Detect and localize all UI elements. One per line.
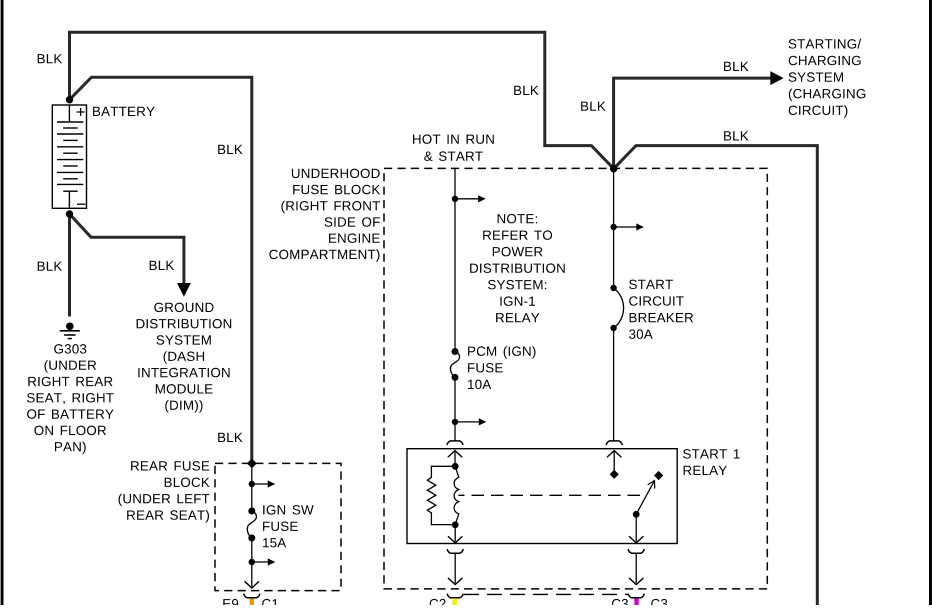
label E9	[223, 599, 238, 609]
relay coil winding	[454, 466, 459, 524]
wire IGN SW fuse to block edge	[251, 538, 253, 587]
wire BLK battery negative down to ground G303	[68, 214, 71, 317]
connector E9/C1 half-circle at rear block boundary	[244, 594, 260, 598]
battery minus sign	[77, 203, 86, 205]
label UNDERHOOD FUSE BLOCK (RIGHT FRONT SIDE OF ENGINE COMPARTMENT)	[269, 169, 380, 262]
label HOT IN RUN & START	[413, 134, 494, 161]
rear fuse block dashed outline	[215, 463, 341, 590]
wire label BLK (rear fuse block feed upper)	[218, 145, 242, 154]
ground G303 symbol	[60, 323, 80, 339]
label BATTERY	[93, 107, 155, 116]
relay switch fixed contact diamond (input)	[610, 470, 619, 479]
junction dot with branch arrow above relay	[452, 419, 458, 425]
battery symbol	[52, 105, 86, 208]
relay coil top junction dot	[452, 463, 459, 470]
wire BLK battery positive branch to rear fuse block feed	[70, 77, 252, 460]
wire main junction down to circuit breaker	[613, 169, 615, 288]
fuse IGN SW 15A	[247, 508, 256, 542]
junction dot with branch arrow in rear fuse block	[249, 481, 255, 487]
battery positive terminal junction dot	[66, 96, 73, 103]
relay switch movable arm with arrowhead	[636, 481, 654, 515]
junction dot with branch arrow above block edge	[249, 559, 255, 565]
connector half-circle below relay switch output	[628, 550, 644, 554]
wire relay switch output to underhood block edge	[635, 553, 637, 583]
relay switch output pin arrow to box edge	[635, 514, 637, 541]
relay suppression resistor	[427, 466, 455, 524]
fuse PCM (IGN) 10A	[450, 348, 459, 381]
wire BLK main junction up and right to starting/charging system	[614, 78, 771, 169]
wire PCM fuse to relay pin	[454, 377, 456, 441]
relay coil output pin arrow to box edge	[454, 525, 456, 542]
relay actuation dashed link	[458, 494, 640, 496]
arrowhead to ground distribution system	[177, 283, 191, 297]
junction dot with branch arrow below main junction	[610, 224, 616, 230]
connector C2 half-circle at underhood block boundary	[447, 594, 463, 598]
connector bracket dashed line between C2 and C3	[464, 593, 629, 595]
label IGN SW FUSE 15A	[263, 505, 314, 547]
junction dot at main bus split on fuse block boundary	[610, 165, 617, 172]
wire BLK battery negative branch to ground distribution system	[70, 214, 184, 283]
circuit breaker START CIRCUIT BREAKER 30A	[610, 285, 623, 331]
wire label BLK (battery negative to G303)	[38, 262, 62, 271]
underhood fuse block dashed outline	[384, 168, 767, 589]
wire colour tick magenta at C3	[634, 598, 638, 605]
wire BLK battery positive to top bus and main junction	[70, 32, 614, 168]
connector C3 half-circle at underhood block boundary	[628, 594, 644, 598]
label PCM (IGN) FUSE 10A	[468, 346, 536, 389]
label C2	[430, 599, 446, 609]
wire hot-in-run feed down to PCM fuse	[454, 168, 456, 352]
page left border	[1, 0, 4, 605]
arrowhead to starting/charging system	[770, 71, 783, 85]
label C3 right of connector	[651, 599, 667, 609]
wire colour tick orange at C1	[250, 598, 254, 605]
relay box START 1 RELAY	[407, 449, 677, 544]
wire colour tick yellow at C2	[452, 598, 457, 605]
label STARTING/CHARGING SYSTEM (CHARGING CIRCUIT)	[789, 39, 866, 118]
page right border	[929, 0, 932, 605]
connector half-circle at relay coil supply pin	[447, 441, 463, 445]
label NOTE REFER TO POWER DISTRIBUTION SYSTEM IGN-1 RELAY	[470, 214, 565, 322]
connector half-circle at relay switch supply pin	[606, 441, 622, 445]
connector half-circle below relay coil output	[447, 550, 463, 554]
battery plus sign	[77, 108, 85, 116]
relay switch fixed contact diamond (normally open)	[654, 471, 663, 480]
junction dot with branch arrow below hot in run	[452, 196, 458, 202]
label START CIRCUIT BREAKER 30A	[629, 280, 693, 339]
wire label BLK (top bus right end)	[514, 86, 538, 95]
wire label BLK (right-side bus)	[724, 131, 749, 140]
wire label BLK (riser to charging arrow)	[581, 102, 605, 111]
wire relay coil output to underhood block edge	[454, 553, 456, 583]
wire feed down to IGN SW fuse	[251, 468, 253, 511]
relay switch common pivot dot	[633, 511, 640, 518]
relay coil bottom junction dot	[452, 521, 459, 528]
label C3 left of connector	[612, 599, 628, 609]
wire label BLK (arrow to charging circuit)	[724, 62, 749, 71]
wire label BLK (rear fuse block feed lower)	[218, 433, 242, 442]
battery negative terminal junction dot	[66, 210, 73, 217]
relay switch input pin entry arrow	[607, 451, 621, 457]
label GROUND DISTRIBUTION SYSTEM (DASH INTEGRATION MODULE (DIM))	[137, 303, 232, 413]
label START 1 RELAY	[683, 449, 740, 475]
wire circuit breaker to relay pin 30	[613, 328, 615, 441]
label REAR FUSE BLOCK (UNDER LEFT REAR SEAT)	[119, 461, 210, 522]
label C1	[262, 599, 278, 609]
relay coil pin entry arrow	[448, 451, 462, 457]
feed terminal diamond on rear fuse block boundary	[247, 458, 257, 468]
wire label BLK (to ground distribution)	[150, 261, 174, 270]
label G303 location	[27, 344, 114, 454]
wire label BLK (battery positive feed)	[38, 54, 62, 63]
wire BLK main junction to right-side bus down the page	[614, 146, 818, 605]
